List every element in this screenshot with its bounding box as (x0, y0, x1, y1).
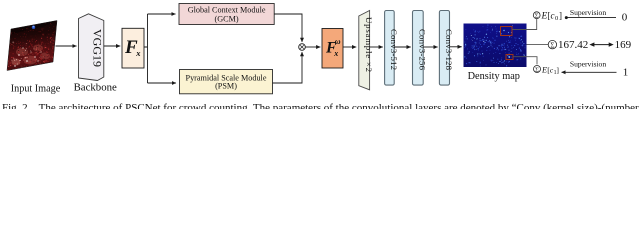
svg-text:Fig. 2. The architecture of: Fig. 2. The architecture of PSCNet for c… (2, 102, 640, 109)
wire region c0 to sum node E[c0] (512, 19, 537, 30)
Conv3-128 layer (439, 11, 454, 86)
Conv3-512 layer (385, 11, 399, 86)
wire Upsample to Conv3-512 (370, 46, 383, 48)
node Fx feature box (122, 28, 144, 68)
svg-text:Upsample ×2: Upsample ×2 (364, 17, 374, 72)
svg-text:Σ: Σ (535, 13, 539, 20)
svg-text:x: x (333, 49, 338, 58)
wire GCM to multiply node (274, 14, 302, 42)
svg-text:167.42: 167.42 (558, 39, 588, 51)
wire Fx split to branches (144, 14, 148, 83)
svg-text:Σ: Σ (550, 41, 554, 49)
svg-text:0: 0 (622, 12, 628, 24)
Upsample x2 layer (359, 11, 374, 90)
svg-text:x: x (135, 48, 141, 58)
sum node top (533, 12, 540, 20)
svg-text:Σ: Σ (535, 66, 539, 73)
double arrow (593, 44, 610, 46)
svg-text:Backbone: Backbone (74, 81, 117, 93)
wire Conv3-256 to Conv3-128 (423, 46, 437, 48)
wire VGG19 to Fx (104, 45, 120, 47)
svg-text:Supervision: Supervision (570, 8, 606, 17)
svg-text:]: ] (556, 65, 559, 74)
svg-text:169: 169 (615, 39, 632, 51)
wire Conv3-512 to Conv3-256 (394, 46, 411, 48)
svg-text:ω: ω (335, 37, 341, 46)
wire Fxw to Upsample (343, 46, 356, 48)
wire to PSM (148, 82, 177, 84)
wire multiply to Fxw (305, 46, 320, 48)
svg-text:Supervision: Supervision (570, 60, 606, 69)
Pyramidal Scale Module (PSM) box (180, 70, 273, 94)
svg-text:0: 0 (555, 15, 558, 22)
supervision arrow bottom (562, 71, 617, 73)
svg-text:Density map: Density map (468, 71, 520, 82)
wire Conv3-128 to density map (450, 46, 462, 48)
svg-text:Input Image: Input Image (11, 83, 61, 94)
wire density map to sum node middle (527, 44, 549, 46)
svg-text:E: E (541, 65, 547, 74)
wire PSM to multiply node (273, 52, 303, 83)
node Fx-omega weighted feature box (322, 29, 343, 69)
svg-text:E: E (541, 12, 548, 22)
supervision arrow top (566, 17, 616, 19)
region box c0 on density map (501, 27, 513, 36)
svg-text:1: 1 (623, 66, 629, 78)
svg-text:]: ] (559, 11, 562, 21)
wire image to VGG19 (56, 45, 77, 47)
wire to GCM (148, 13, 176, 15)
density map image (464, 24, 527, 68)
sum node bottom (534, 66, 541, 74)
svg-text:c: c (551, 11, 555, 21)
svg-text:Global Context Module: Global Context Module (188, 6, 266, 15)
svg-text:Conv3-256: Conv3-256 (417, 29, 427, 71)
svg-text:Conv3-128: Conv3-128 (444, 29, 454, 71)
svg-text:(PSM): (PSM) (215, 82, 237, 91)
svg-text:VGG19: VGG19 (91, 29, 105, 67)
Conv3-256 layer (413, 11, 428, 86)
input image (crowd photo) (7, 20, 57, 70)
region box c1 on density map (506, 55, 513, 60)
sum node middle (548, 40, 556, 49)
multiply node (circled X) (299, 44, 306, 51)
svg-text:Conv3-512: Conv3-512 (389, 29, 399, 70)
Global Context Module (GCM) box (179, 4, 274, 25)
wire region c1 to sum node bottom (513, 57, 537, 65)
svg-text:(GCM): (GCM) (215, 14, 239, 23)
VGG19 backbone slab (79, 14, 105, 81)
